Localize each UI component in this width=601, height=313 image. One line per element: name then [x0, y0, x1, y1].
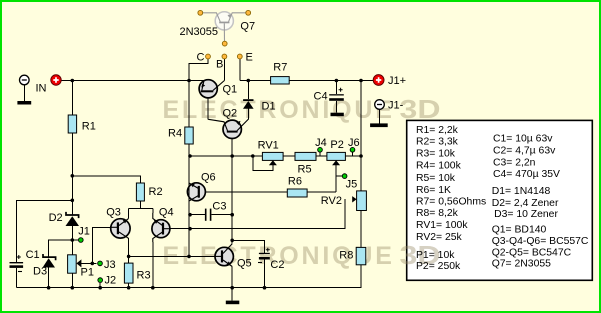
wire: E jumper [239, 57, 241, 81]
svg-text:C3= 2,2n: C3= 2,2n [493, 157, 536, 168]
wire: right vertical RV2 to R8 [360, 211, 362, 248]
zener diode D3 [43, 254, 56, 268]
zener diode D2 [66, 212, 80, 226]
wire: D1 top stem [247, 81, 249, 100]
wire: J1- stem [379, 109, 381, 123]
wire: J2 stem [99, 283, 101, 288]
svg-text:2N3055: 2N3055 [180, 26, 219, 38]
node J1+ corner [359, 79, 363, 83]
potentiometer P2 [327, 152, 346, 165]
svg-text:J5: J5 [346, 179, 358, 191]
svg-text:J4: J4 [315, 137, 327, 149]
node C3 left [188, 213, 192, 217]
wire: Q6 base to R6 [200, 191, 288, 193]
svg-text:RV1: RV1 [258, 140, 279, 152]
wire: Q5 base wire [129, 255, 216, 257]
wire: C jumper to rail [189, 57, 208, 81]
wire: C1 bottom stem [15, 268, 17, 288]
resistor R4 [185, 127, 193, 144]
svg-text:R6= 1K: R6= 1K [416, 185, 451, 196]
svg-text:3D: 3D [400, 94, 441, 124]
node J3 [98, 261, 103, 266]
wire: J6 stem [352, 153, 354, 156]
svg-text:R3= 10k: R3= 10k [416, 149, 456, 160]
wire: Q3 emitter down to R3 [128, 238, 130, 263]
node C3 right [230, 213, 234, 217]
resistor R5 [295, 152, 316, 160]
resistor R2 [136, 183, 144, 201]
wire: C4 bottom stem [335, 101, 337, 113]
wire: C4 top stem [335, 81, 337, 95]
terminal IN- [17, 75, 31, 104]
potentiometer P1 [68, 255, 82, 273]
node x189/Q4 base wire crossing [188, 227, 192, 231]
svg-text:P2: P2 [330, 139, 343, 151]
wire: Q5 emitter down to ground [231, 267, 233, 301]
svg-text:C: C [197, 52, 205, 64]
svg-text:R6: R6 [288, 176, 302, 188]
node R2 branch [71, 174, 75, 178]
node D1 / rail [247, 79, 251, 83]
legend text right column [492, 133, 589, 269]
terminal IN+ [51, 75, 61, 85]
wire: mid rail y=156 [190, 155, 361, 157]
svg-text:ELECTRONIQUE: ELECTRONIQUE [163, 96, 395, 124]
green jumper dots [78, 147, 354, 282]
svg-text:Q7: Q7 [240, 21, 255, 33]
svg-text:R1: R1 [82, 121, 96, 133]
svg-text:J1-: J1- [388, 100, 404, 112]
wire: Q1 collector down [207, 98, 209, 119]
capacitor C2 [258, 248, 270, 263]
legend box [407, 120, 593, 280]
wire: J4 stem [319, 153, 321, 156]
node RV1 loop [251, 154, 255, 158]
svg-text:R2= 3,3k: R2= 3,3k [416, 137, 459, 148]
svg-text:R1= 2,2k: R1= 2,2k [416, 125, 459, 136]
wire: R2 bottom to split [139, 201, 141, 208]
wire: Q4 emitter down to rail [152, 242, 154, 288]
wire: C3 right wire [211, 214, 232, 216]
svg-text:RV1= 100k: RV1= 100k [416, 220, 468, 231]
wire: x=189 vertical rail to R4 [188, 81, 190, 128]
svg-text:Q3-Q4-Q6= BC557C: Q3-Q4-Q6= BC557C [492, 236, 589, 247]
svg-text:R7: R7 [273, 62, 287, 74]
svg-text:Q6: Q6 [201, 172, 216, 184]
wire: D1 bottom to Q2 lead corner [247, 109, 249, 120]
resistor R7 [271, 77, 290, 84]
wire: C2 branch horizontal [232, 240, 264, 253]
wire: P1 bottom to rail [71, 273, 73, 288]
svg-text:R8= 8,2k: R8= 8,2k [416, 208, 459, 219]
svg-text:P1: P1 [81, 267, 94, 279]
transistor Q7 (external, gray) [203, 12, 246, 41]
wire: Q2 emitter down to mid rail [231, 139, 233, 157]
transistor Q5 [215, 244, 233, 267]
svg-text:Q2-Q5= BC547C: Q2-Q5= BC547C [492, 247, 572, 258]
capacitor C4 [329, 88, 344, 101]
svg-text:D3= 10 Zener: D3= 10 Zener [494, 209, 558, 220]
wire: D2 to P1 [71, 226, 73, 255]
svg-text:J2: J2 [105, 275, 117, 287]
wire: top rail R7 to J1+ [289, 80, 373, 82]
wire: R1 bottom to D2 [71, 133, 73, 215]
pin E [237, 54, 242, 59]
pin C [206, 54, 211, 59]
svg-text:R4: R4 [168, 128, 182, 140]
svg-text:Q2: Q2 [223, 108, 238, 120]
node J1 [78, 238, 83, 243]
terminal J1+ [373, 75, 384, 86]
svg-text:R5: R5 [298, 164, 312, 176]
wire: C2 bottom stem [264, 260, 266, 288]
svg-text:Q1= BD140: Q1= BD140 [492, 224, 547, 235]
svg-text:IN: IN [36, 83, 47, 95]
node rail D3 [47, 286, 51, 290]
svg-text:R2: R2 [149, 186, 163, 198]
wire: top rail from IN+ to Q1 emitter [61, 80, 204, 82]
terminal J1- [370, 100, 388, 127]
svg-text:Q7= 2N3055: Q7= 2N3055 [492, 259, 551, 270]
node rail P1 [71, 286, 75, 290]
svg-text:Q3: Q3 [106, 207, 121, 219]
wire: Q3 base vertical from J3 wire [92, 227, 110, 263]
node rail C2 [263, 286, 267, 290]
node mid rail x189 [188, 154, 192, 158]
svg-text:C4= 470µ 35V: C4= 470µ 35V [493, 169, 560, 180]
node C2 branch [230, 239, 234, 243]
node C4 / rail [335, 79, 339, 83]
node C1 branch [71, 199, 75, 203]
svg-text:P2= 250k: P2= 250k [416, 261, 461, 272]
wire: x=232 vertical mid rail to Q5 collector region [231, 156, 233, 244]
resistor R8 [356, 247, 366, 264]
wire: IN- stem [23, 85, 25, 101]
svg-text:P1= 10k: P1= 10k [416, 250, 455, 261]
node C jumper / rail [187, 79, 191, 83]
svg-text:E: E [246, 52, 253, 64]
node J2 [98, 278, 103, 283]
node mid rail right [359, 154, 363, 158]
svg-text:D1= 1N4148: D1= 1N4148 [492, 186, 551, 197]
svg-text:RV2: RV2 [321, 195, 342, 207]
svg-text:J1: J1 [78, 226, 90, 238]
wire: right vertical J1+ corner down to RV2 [360, 81, 362, 191]
wire: Q3-Q4 split horizontal [129, 207, 153, 209]
resistor R6 [287, 189, 307, 197]
node rail Q4 [151, 286, 155, 290]
svg-text:Q4: Q4 [159, 207, 174, 219]
wire: P2 wiper vertical [335, 165, 337, 192]
node Q3/R3/Q5 base [127, 255, 131, 259]
node rail R3 [127, 286, 131, 290]
wire: D3 branch [49, 240, 73, 257]
node rail J2 [98, 286, 102, 290]
wire: J3 to P1 wiper [78, 262, 97, 264]
wire: B jumper [223, 57, 225, 81]
svg-text:J1+: J1+ [388, 75, 406, 87]
node J6 [350, 147, 355, 152]
svg-text:Q5: Q5 [237, 258, 252, 270]
wire: right vertical R8 to bottom rail [360, 265, 362, 288]
transistor Q1 [199, 80, 224, 98]
node R1 top [71, 79, 75, 83]
transistor Q6 (x189 line passes through) [187, 183, 205, 201]
svg-text:C2= 4,7µ 63v: C2= 4,7µ 63v [493, 145, 556, 156]
node J4 [318, 147, 323, 152]
wire: bottom rail [16, 287, 361, 289]
wire: Q3 collector corner up [128, 208, 130, 218]
wire: C1 branch [16, 200, 72, 262]
diode D1 [243, 99, 254, 109]
node rail Q5 ground [230, 286, 234, 290]
svg-text:C1: C1 [26, 249, 40, 261]
wire: C3 left wire [190, 214, 205, 216]
svg-text:R5= 10k: R5= 10k [416, 173, 456, 184]
wire: J5 stub [336, 175, 342, 177]
svg-text:C4: C4 [314, 91, 328, 103]
capacitor C1 [10, 255, 24, 272]
wire: Q4 base long wire to RV2 wiper [164, 199, 345, 229]
svg-text:C1= 10µ 63v: C1= 10µ 63v [493, 133, 553, 144]
svg-text:C2: C2 [270, 259, 284, 271]
svg-text:D1: D1 [262, 101, 276, 113]
transistor Q4 [152, 213, 170, 242]
svg-text:B: B [216, 59, 223, 71]
legend text left column [416, 125, 486, 272]
wire: J1 stub [72, 239, 78, 241]
Q7 pin dots (orange) [198, 10, 251, 59]
wire: R3 bottom stem [128, 283, 130, 288]
resistor R3 [124, 263, 133, 283]
transistor Q3 [111, 219, 130, 239]
wire: x=189 vertical R4 to Q5 base wire [188, 144, 190, 256]
svg-text:J3: J3 [104, 259, 116, 271]
node J3/Q3 base [91, 262, 95, 266]
potentiometer RV1 [262, 152, 283, 165]
svg-text:J6: J6 [348, 137, 360, 149]
capacitor C3 [205, 209, 212, 221]
svg-text:Q1: Q1 [223, 84, 238, 96]
svg-text:R8: R8 [339, 250, 353, 262]
wire: R2 branch horizontal [72, 176, 140, 183]
svg-text:R7= 0,56Ohms: R7= 0,56Ohms [416, 197, 486, 208]
ground under C4 [331, 113, 344, 117]
pin B [222, 54, 227, 59]
svg-text:R4= 100k: R4= 100k [416, 161, 462, 172]
resistor R1 [68, 115, 76, 133]
svg-text:D2= 2,4 Zener: D2= 2,4 Zener [492, 198, 559, 209]
ground under Q5 [226, 301, 240, 305]
wire: RV1 wiper loop [253, 156, 273, 170]
node x189 to Q5 base [187, 255, 191, 259]
svg-text:D2: D2 [49, 212, 63, 224]
wire: R1 branch vertical top [71, 81, 73, 116]
svg-text:C3: C3 [212, 201, 226, 213]
svg-text:R3: R3 [137, 270, 151, 282]
wire: D3 bottom stem [48, 268, 50, 288]
node mid rail x232 [230, 154, 234, 158]
node J5 [342, 174, 347, 179]
node D2/D3/J1 [71, 238, 75, 242]
wire: top rail right segment E-drop to R7 [240, 80, 271, 82]
potentiometer RV2 [352, 191, 366, 211]
svg-text:RV2= 25k: RV2= 25k [416, 232, 463, 243]
svg-text:D3: D3 [33, 266, 47, 278]
wire: R6 right to P2 wiper corner [307, 191, 336, 193]
wire: Q4 collector up to split [152, 208, 154, 213]
transistor Q2 [208, 119, 248, 138]
